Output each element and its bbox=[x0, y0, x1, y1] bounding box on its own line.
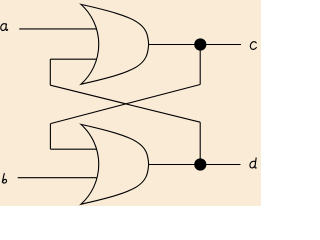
label c bbox=[250, 42, 256, 50]
or-gate U2 (bottom) bbox=[81, 124, 149, 204]
wire U1 lower input bbox=[50, 58, 97, 60]
wire feedback diagonal from c to lower gate bbox=[51, 85, 201, 124]
wire U2 top input bbox=[50, 148, 96, 150]
wire left vertical down to U2 input bbox=[49, 124, 51, 150]
wire left vertical down from U1 input bbox=[49, 59, 51, 85]
wire node c vertical down bbox=[199, 45, 201, 85]
or-gate U1 (top) bbox=[81, 4, 149, 84]
wire feedback diagonal from d to upper gate bbox=[50, 85, 200, 122]
label a bbox=[1, 24, 8, 31]
wire U1 output to node c bbox=[148, 44, 241, 46]
label b bbox=[2, 174, 6, 184]
wire node d vertical down bbox=[199, 122, 201, 164]
junction dot node d bbox=[194, 158, 206, 170]
wire input b bbox=[18, 177, 97, 179]
wire input a bbox=[19, 28, 97, 30]
wire U2 output to node d bbox=[148, 164, 241, 166]
label d bbox=[250, 158, 256, 168]
junction dot node c bbox=[194, 38, 206, 50]
